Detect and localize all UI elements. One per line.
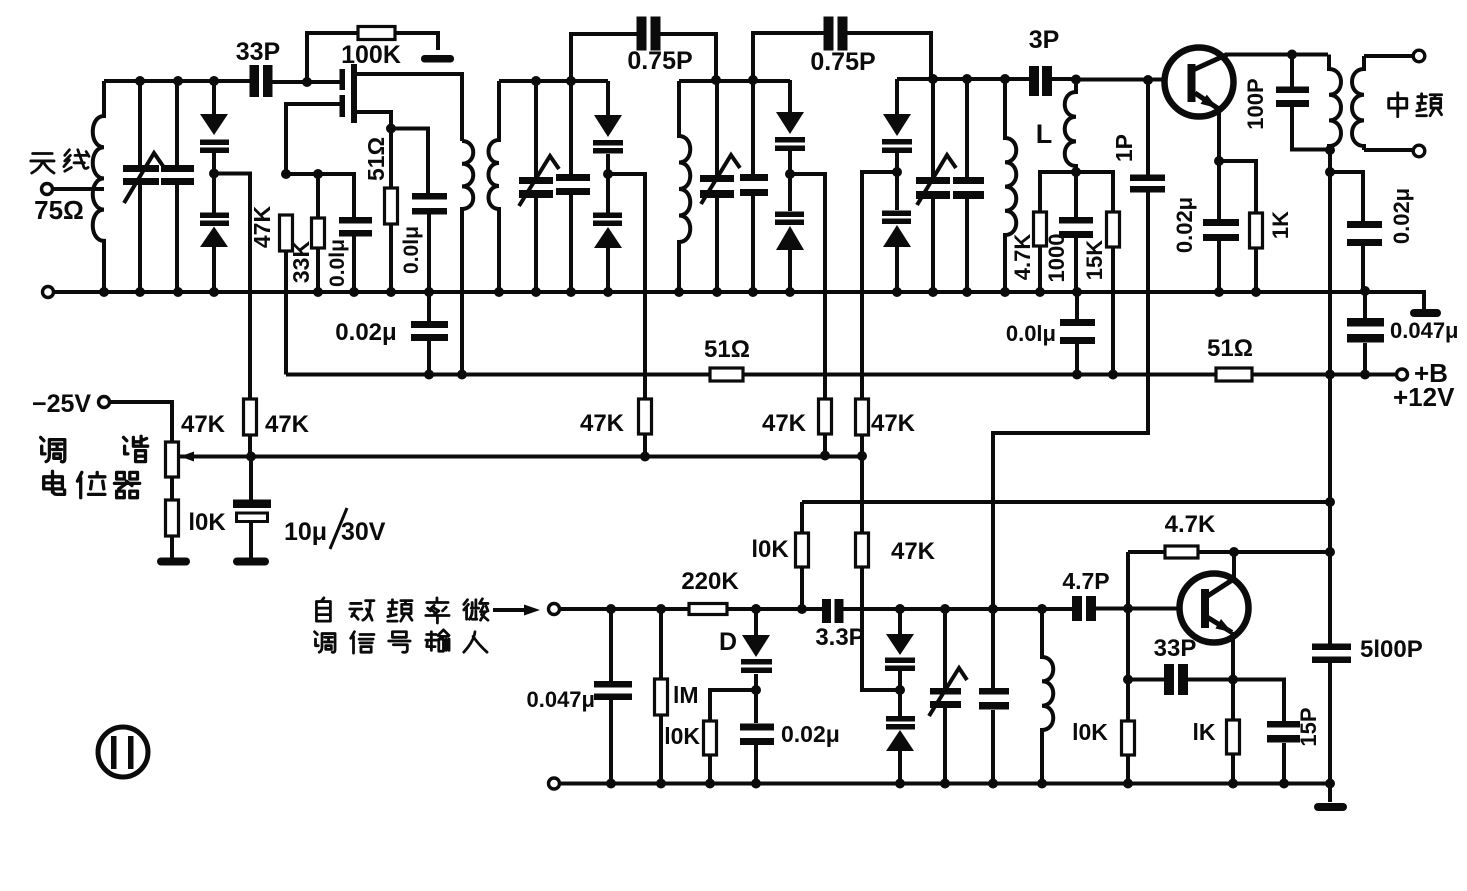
terminal: bus left — [43, 287, 54, 298]
label 电位器 — [44, 471, 140, 497]
svg-text:0.75P: 0.75P — [627, 47, 692, 75]
junction: AFC ground return line — [606, 779, 1335, 789]
label 自动频率微 — [316, 598, 488, 623]
wire: tank1 varactor tap to tuning pot — [214, 174, 250, 457]
capacitor 15P — [1267, 721, 1300, 743]
resistor 47K (tank4 tuning) — [856, 399, 869, 435]
wire: Q2 emitter — [1233, 632, 1284, 784]
variable capacitor (AFC tank) — [929, 609, 967, 784]
ground (bus right end) — [1410, 309, 1441, 317]
junction: +B line — [424, 370, 1370, 380]
svg-text:3.3P: 3.3P — [815, 624, 864, 651]
svg-text:3P: 3P — [1029, 26, 1060, 54]
terminal: -25V — [99, 397, 173, 443]
svg-text:4.7K: 4.7K — [1165, 511, 1216, 538]
wire: tank1 top — [104, 79, 251, 83]
label 中频 — [1389, 93, 1442, 117]
svg-text:100P: 100P — [1243, 78, 1268, 129]
svg-text:51Ω: 51Ω — [1207, 335, 1253, 362]
terminal: antenna input — [42, 184, 105, 195]
resistor 1K (Q1 emitter) — [1250, 213, 1263, 248]
resistor 4.7K (osc) — [1034, 212, 1047, 246]
wire: tank2 varactor tap — [608, 174, 645, 457]
resistor 15K — [1107, 212, 1120, 247]
terminal: IF out lower — [1413, 145, 1425, 157]
resistor 10K (osc bias upper) — [796, 533, 809, 567]
varactor diode (tank4 lower) — [882, 172, 911, 292]
capacitor 0.02μ (AFC) — [740, 690, 774, 784]
svg-text:+12V: +12V — [1393, 382, 1455, 412]
varactor diode (tank2 lower) — [593, 174, 622, 292]
inductor L (oscillator) — [1065, 79, 1076, 172]
label 天线 — [31, 150, 89, 173]
svg-text:0.0lμ: 0.0lμ — [1006, 321, 1056, 346]
resistor 51Ω (FET source) — [385, 188, 398, 292]
svg-text:l0K: l0K — [664, 723, 700, 749]
capacitor (tank2 fixed) — [556, 81, 590, 292]
svg-text:47K: 47K — [762, 410, 807, 437]
svg-text:1P: 1P — [1111, 134, 1137, 162]
wire: FET source node — [356, 112, 428, 193]
resistor 10K (AFC) — [704, 721, 717, 755]
inductor: tank3 coil — [679, 81, 690, 292]
wire: FET drain to tank2 — [356, 74, 462, 141]
wire: main vertical from IF to ground (B+ feed) — [1328, 150, 1332, 802]
ground (10K) — [157, 558, 190, 566]
label 调信号输入 — [315, 630, 487, 653]
svg-text:4.7P: 4.7P — [1062, 568, 1109, 594]
capacitor 3.3P — [822, 599, 844, 623]
resistor 33K — [312, 218, 325, 292]
capacitor 0.047μ (AFC input) — [594, 609, 632, 784]
capacitor 33P — [250, 65, 341, 97]
inductor: antenna coil — [93, 81, 104, 292]
svg-text:47K: 47K — [580, 410, 625, 437]
svg-text:0.02μ: 0.02μ — [1389, 188, 1414, 244]
wire: D node to 10K — [710, 690, 756, 784]
inductor: tank4 coil — [1005, 79, 1016, 292]
wire: Q2 base node — [1128, 552, 1330, 680]
svg-text:220K: 220K — [681, 568, 739, 595]
svg-text:33P: 33P — [1154, 635, 1197, 662]
varactor diode (tank3 lower) — [775, 174, 804, 292]
wire: +B supply line — [286, 373, 1396, 377]
varactor diode D — [741, 609, 772, 690]
svg-text:15P: 15P — [1296, 707, 1321, 746]
inductor: tank2 secondary coil — [489, 81, 500, 292]
terminal: AFC return — [549, 778, 560, 789]
transistor Q2 (AFC oscillator) — [1180, 574, 1249, 643]
varactor diode (tank1 lower) — [200, 174, 229, 293]
junction: AFC line — [606, 497, 1335, 695]
svg-text:lM: lM — [673, 682, 699, 708]
svg-text:47K: 47K — [249, 206, 275, 249]
wire: tank2 top — [499, 79, 608, 83]
svg-text:33P: 33P — [236, 38, 280, 66]
wire: tank3 varactor tap — [790, 174, 825, 456]
resistor 1M — [655, 609, 668, 784]
capacitor 5100P — [1312, 644, 1351, 664]
capacitor 33P (Q2 feedback) — [1128, 664, 1233, 695]
wire: tank4 top — [897, 77, 1030, 81]
svg-text:51Ω: 51Ω — [363, 137, 389, 181]
svg-text:0.75P: 0.75P — [810, 48, 875, 76]
resistor 51Ω (+B right) — [1216, 368, 1252, 381]
capacitor 0.75P (coupling 2) — [753, 17, 931, 81]
varactor diode (tank3 upper) — [775, 80, 805, 174]
wire: IF output bottom — [1364, 148, 1413, 152]
svg-text:lK: lK — [1193, 719, 1216, 745]
svg-text:100K: 100K — [341, 41, 401, 69]
wire: oscillator line to Q1 base — [1076, 78, 1188, 82]
transistor: MOSFET (RF amp) — [340, 64, 358, 123]
capacitor (tank1 fixed) — [161, 81, 194, 292]
junction: ground bus — [99, 286, 1370, 297]
resistor 47K (tank2 tuning) — [639, 399, 652, 434]
label 调谐 — [41, 436, 148, 462]
resistor 51Ω (+B left) — [710, 368, 743, 381]
capacitor 0.01μ (decoupling mid) — [1060, 292, 1095, 375]
svg-text:D: D — [719, 628, 737, 656]
terminal: IF out upper — [1413, 50, 1425, 62]
capacitor 0.75P (coupling 1) — [571, 17, 716, 82]
wire: Q1 collector — [1225, 53, 1328, 57]
junction: tuning line — [246, 451, 867, 462]
capacitor 0.02μ (IF right) — [1347, 221, 1382, 291]
varactor diode (tank2 upper) — [593, 81, 623, 174]
wire: Q2 collector — [1232, 552, 1236, 580]
capacitor 4.7P — [1072, 596, 1096, 621]
wire: tuning voltage line — [179, 452, 862, 462]
terminal: AFC input — [549, 604, 560, 615]
svg-text:0.0lμ: 0.0lμ — [400, 226, 423, 274]
svg-text:0.0lμ: 0.0lμ — [326, 239, 349, 287]
transistor Q1 (mixer) — [1165, 48, 1234, 117]
variable capacitor (tank4) — [916, 79, 956, 292]
svg-text:30V: 30V — [341, 518, 386, 546]
inductor: IF transformer secondary — [1352, 56, 1364, 150]
svg-text:l0K: l0K — [751, 536, 789, 563]
svg-text:l0K: l0K — [1072, 719, 1108, 745]
svg-text:0.047μ: 0.047μ — [526, 687, 595, 712]
wire: tank3 top — [679, 79, 790, 83]
figure mark 11 — [98, 727, 148, 777]
resistor 100K — [358, 27, 395, 40]
junction: tank top wires — [135, 74, 1153, 87]
resistor 47K (tank3 tuning) — [819, 399, 832, 434]
svg-text:L: L — [1036, 119, 1053, 149]
arrow: AFC input — [493, 605, 540, 616]
variable capacitor (tank1) — [123, 81, 163, 292]
terminal: +B +12V — [1397, 369, 1408, 380]
capacitor (tank3 fixed) — [740, 80, 768, 292]
potentiometer (tuning) — [166, 442, 197, 477]
capacitor 1000 — [1059, 217, 1093, 292]
resistor 10K (Q2 base lower) — [1122, 680, 1135, 784]
resistor 1K (Q2 emitter) — [1227, 720, 1240, 784]
variable capacitor (tank2) — [519, 81, 559, 292]
capacitor 0.02μ (decoupling left) — [411, 292, 448, 375]
svg-text:47K: 47K — [181, 411, 226, 438]
capacitor 100P — [1276, 55, 1329, 150]
ground (100K) — [421, 55, 454, 63]
inductor: AFC tank coil — [1042, 609, 1053, 784]
capacitor 0.02μ (Q1 emitter) — [1203, 219, 1239, 292]
varactor diode (AFC tank upper) — [885, 609, 915, 690]
wire: FET gate2 bias — [286, 104, 340, 174]
resistor 47K (FET bias upper) — [280, 215, 293, 375]
svg-text:1000: 1000 — [1044, 234, 1069, 283]
capacitor (AFC tank fixed) — [979, 609, 1009, 784]
resistor 47K (osc bias) — [856, 457, 901, 691]
svg-text:0.02μ: 0.02μ — [1172, 197, 1197, 253]
svg-text:0.02μ: 0.02μ — [781, 721, 840, 747]
inductor: tank2 primary coil — [462, 141, 473, 375]
wire: gate1 node to 100K — [307, 33, 438, 82]
ground (10μ) — [233, 558, 269, 566]
resistor 220K — [689, 604, 727, 615]
capacitor 0.047μ (supply) — [1347, 291, 1384, 375]
wire: AFC input line — [560, 607, 1202, 612]
svg-text:10μ: 10μ — [284, 518, 327, 546]
wire: IF bottom to 0.02μ right — [1330, 172, 1363, 221]
junction: varactor taps and bias nodes — [209, 50, 1335, 180]
svg-text:0.047μ: 0.047μ — [1390, 318, 1459, 343]
svg-text:−25V: −25V — [32, 390, 91, 418]
wire: AFC ground return line — [560, 782, 1330, 786]
svg-text:47K: 47K — [891, 538, 936, 565]
capacitor 0.01μ (bias 1) — [339, 217, 372, 292]
wire: IF output top — [1364, 54, 1413, 58]
svg-text:15K: 15K — [1082, 240, 1107, 280]
resistor 10K (pot lower) — [166, 477, 179, 558]
capacitor (tank4 fixed) — [953, 79, 984, 292]
wire: feedback line y502 — [802, 502, 1330, 609]
wire: Q1 emitter — [1219, 108, 1256, 292]
capacitor 0.01μ (bias 2) — [412, 193, 447, 292]
varactor diode (tank4 upper) — [882, 79, 912, 172]
inductor: IF transformer primary — [1329, 55, 1341, 151]
varactor diode (tank1 upper) — [200, 81, 229, 174]
svg-text:47K: 47K — [871, 410, 916, 437]
wire: bias node line — [286, 174, 354, 218]
svg-text:75Ω: 75Ω — [34, 195, 84, 225]
varactor diode (AFC tank lower) — [886, 690, 915, 784]
svg-text:51Ω: 51Ω — [704, 336, 750, 363]
wire: tank4 varactor tap — [862, 172, 897, 457]
wire: L bottom node — [1040, 172, 1113, 375]
svg-text:1K: 1K — [1268, 211, 1293, 239]
wire: main ground bus — [54, 292, 1424, 309]
svg-text:5l00P: 5l00P — [1360, 636, 1423, 663]
resistor 4.7K (Q2 collector) — [1165, 546, 1198, 558]
svg-text:l0K: l0K — [188, 509, 226, 536]
resistor 47K (tank1 tuning) — [244, 399, 257, 435]
capacitor 1P — [993, 80, 1165, 609]
svg-text:4.7K: 4.7K — [1010, 234, 1035, 281]
variable capacitor (tank3) — [700, 80, 740, 292]
svg-text:33K: 33K — [288, 241, 314, 284]
capacitor 3P — [1029, 66, 1076, 96]
svg-text:47K: 47K — [265, 411, 310, 438]
capacitor 10μ/30V electrolytic — [233, 457, 271, 559]
ground (bottom right) — [1314, 803, 1347, 811]
svg-text:0.02μ: 0.02μ — [335, 319, 396, 346]
